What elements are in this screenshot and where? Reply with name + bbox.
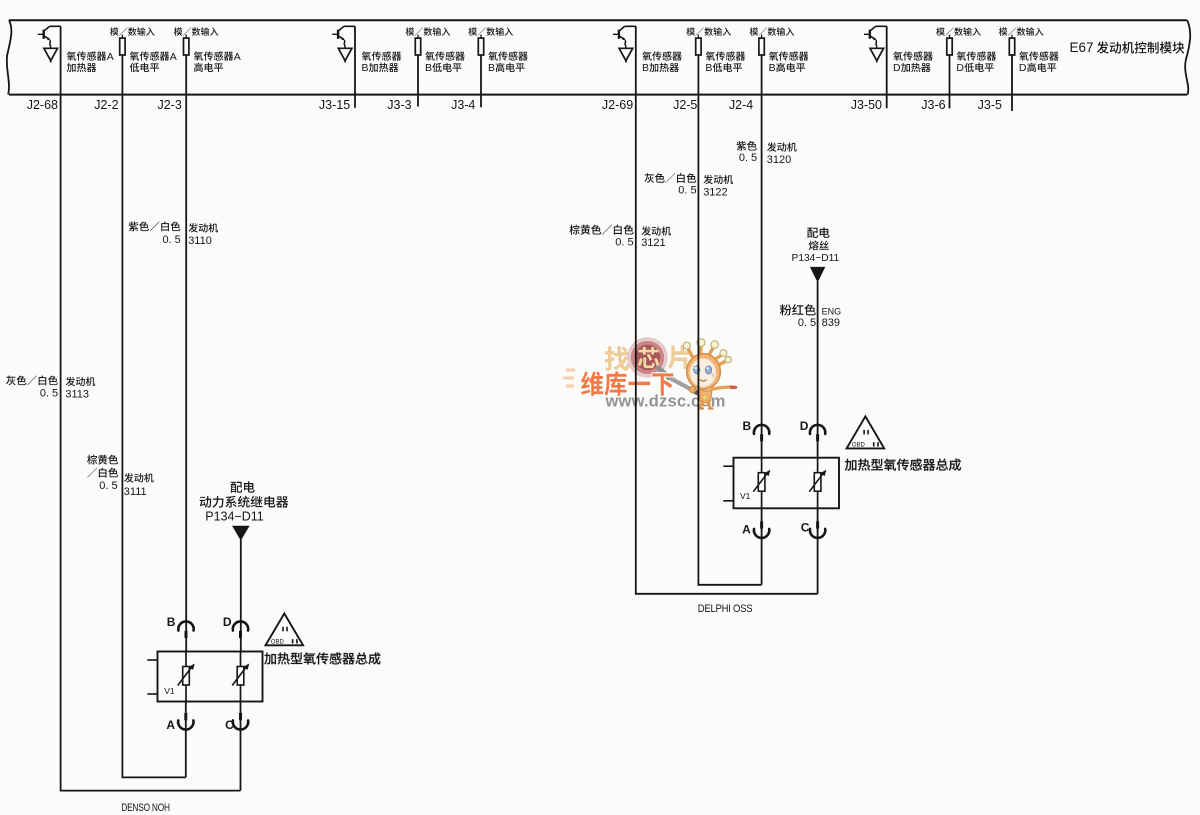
resistor input J2-2 (oxygen sensor A low) [121,35,123,39]
wire stub J3-4 [480,55,482,107]
DENSO case stub lower-left [147,693,157,695]
wire D inside DELPHI box [817,458,819,509]
sense element right (DELPHI) [814,473,821,492]
svg-text:0. 5: 0. 5 [162,234,180,246]
label 氧传感器 B高电平 (J2-4) [769,51,809,60]
svg-text:3121: 3121 [641,237,665,249]
transistor driver J2-68 (oxygen sensor A heater) [44,26,60,30]
svg-text:3110: 3110 [188,235,212,247]
wire stub J3-15 [354,26,356,108]
svg-text:E67: E67 [1070,40,1094,55]
svg-text:A: A [742,523,751,537]
svg-text:DELPHI OSS: DELPHI OSS [698,603,753,615]
svg-text:V1: V1 [164,686,175,696]
inline connector pin D (DELPHI) [810,425,825,434]
svg-text:A: A [166,718,175,732]
resistor input J3-5 (oxygen sensor D high) [1011,35,1013,39]
svg-text:C: C [225,718,234,732]
connector P134-D11 fuse feed triangle [811,267,825,281]
svg-text:J2-3: J2-3 [157,98,181,112]
transistor driver J2-69 (oxygen sensor B heater) [620,26,636,30]
svg-text:J2-68: J2-68 [27,98,58,112]
svg-text:B: B [488,62,495,74]
resistor input J3-6 (oxygen sensor D low) [949,35,951,39]
label 氧传感器 B低电平 (J2-5) [706,51,746,60]
sense element right (DENSO) [237,667,244,686]
label 氧传感器 D高电平 [1019,51,1059,60]
label 模/数输入 (J3-6) [936,27,980,35]
OBD II triangle (DELPHI) [847,416,885,448]
watermark mascot [683,339,737,409]
svg-text:J3-15: J3-15 [319,98,350,112]
wire color label 灰色/白色 0.5 发动机3122 (J2-5) [644,173,696,183]
svg-text:B: B [362,62,369,74]
svg-text:3122: 3122 [703,186,727,198]
resistor input J3-4 (oxygen sensor B high) [480,35,482,39]
svg-text:J3-3: J3-3 [387,98,411,112]
svg-text:D: D [1019,62,1027,74]
wire stub J3-50 [886,26,888,108]
transistor driver J3-50 (oxygen sensor D heater) [870,26,886,30]
resistor input J2-5 (oxygen sensor B low) [697,35,699,39]
OBD II triangle (DENSO) [266,614,304,646]
wire color label 紫色/白色 0.5 发动机3110 (J2-3) [129,221,181,231]
label 加热型氧传感器总成 (DELPHI) [845,459,961,471]
label 加热型氧传感器总成 (DENSO) [264,652,380,664]
wire stub J3-6 [949,55,951,108]
svg-text:A: A [234,51,241,63]
svg-text:V1: V1 [740,491,751,501]
label 氧传感器 B低电平 [425,51,465,60]
label 模/数输入 (J2-5) [686,27,730,35]
inline connector pin C (DENSO) [240,702,242,791]
DELPHI case stub upper-left [723,465,733,467]
transistor driver J3-15 (oxygen sensor B heater) [339,26,355,30]
wire color label 棕黄色/白色 0.5 发动机3121 (J2-69) [569,225,633,235]
label 模/数输入 (J2-2) [110,27,154,35]
wire J2-69 ECM to DELPHI pin C [636,26,818,594]
svg-text:0. 5: 0. 5 [678,185,696,197]
svg-text:D: D [893,62,901,74]
resistor input J2-3 (oxygen sensor A high) [185,35,187,39]
watermark dzsc.com logo [563,370,575,386]
wire color label 棕黄色/白色 0.5 发动机3111 (J2-2) [87,455,118,465]
svg-text:0. 5: 0. 5 [739,152,757,164]
label 模/数输入 (J3-3) [406,27,450,35]
inline connector pin A (DELPHI) [761,508,763,585]
label 氧传感器 D加热器 [893,51,933,60]
label 配电 动力系统继电器 P134-D11 [231,481,255,493]
svg-text:J2-5: J2-5 [673,98,697,112]
label 氧传感器 B加热器 (J2-69) [642,51,682,60]
wire color label 粉红色 0.5 ENG839 (fuse feed) [780,304,816,315]
svg-text:B: B [425,62,432,74]
label 氧传感器 B加热器 [362,51,402,60]
wire J2-3 ECM to DENSO pin B [185,55,187,652]
DELPHI case stub lower-left [723,500,733,502]
wire B inside DENSO box [185,652,187,702]
connector P134-D11 relay feed triangle [233,526,249,539]
svg-text:J3-4: J3-4 [451,98,475,112]
label 氧传感器A 加热器 [67,51,107,60]
inline connector pin A (DENSO) [185,702,187,778]
svg-text:B: B [769,62,776,74]
svg-text:B: B [743,419,752,433]
svg-text:P134−D11: P134−D11 [792,253,840,264]
svg-text:839: 839 [822,317,840,329]
oxygen sensor assembly DENSO NOH box [158,652,263,702]
svg-text:J2-69: J2-69 [602,98,633,112]
svg-text:3113: 3113 [65,389,89,401]
wire J2-5 ECM to DELPHI pin A [698,55,761,585]
label 模/数输入 (J3-5) [999,27,1043,35]
label 氧传感器 D低电平 [957,51,997,60]
svg-text:C: C [801,521,810,535]
wire color label 紫色 0.5 发动机3120 (J2-4) [737,141,757,151]
inline connector pin C (DELPHI) [817,508,819,594]
heater element left (DENSO V1) [183,667,190,686]
svg-text:J2-2: J2-2 [94,98,118,112]
ECM module E67 band outline [9,20,1187,94]
svg-text:J3-50: J3-50 [851,98,882,112]
svg-text:J3-6: J3-6 [921,98,945,112]
label 氧传感器 B高电平 [488,51,528,60]
svg-text:3111: 3111 [124,486,147,498]
svg-text:D: D [956,62,964,74]
svg-text:3120: 3120 [767,154,791,166]
wire B inside DELPHI box [761,458,763,509]
svg-text:D: D [223,615,232,629]
label 配电 熔丝 P134-D11 (fuse) [807,227,829,238]
svg-text:J3-5: J3-5 [978,98,1002,112]
svg-text:P134−D11: P134−D11 [205,509,264,523]
label 氧传感器A 高电平 [194,51,234,60]
svg-text:0. 5: 0. 5 [615,236,633,248]
svg-text:D: D [800,419,809,433]
svg-text:A: A [170,51,177,63]
svg-text:0. 5: 0. 5 [99,480,117,492]
inline connector pin B (DELPHI) [754,425,769,434]
svg-text:A: A [107,51,114,63]
wire J2-4 ECM to DELPHI pin B [761,55,763,458]
inline connector pin D (DENSO) [233,621,248,630]
resistor input J2-4 (oxygen sensor B high) [761,35,763,39]
svg-text:OBD: OBD [852,443,866,449]
heater element left (DELPHI V1) [758,473,765,492]
svg-text:ENG: ENG [822,307,842,317]
svg-text:B: B [705,62,712,74]
svg-text:DENSO NOH: DENSO NOH [121,802,170,814]
wire D inside DENSO box [240,652,242,702]
DENSO case stub upper-left [147,659,157,661]
label 模/数输入 (J2-3) [174,27,218,35]
svg-text:B: B [642,62,649,74]
wire stub J3-5 [1011,55,1013,111]
wire color label 灰色/白色 0.5 发动机3113 (J2-68) [6,375,58,385]
wire J2-2 ECM to DENSO pin A [122,55,185,777]
wire stub J3-3 [417,55,419,107]
label 氧传感器A 低电平 [130,51,170,60]
wire fuse feed to DELPHI pin D [817,281,819,457]
label 模/数输入 (J3-4) [468,27,512,35]
wire relay feed to DENSO pin D [240,540,242,652]
svg-text:J2-4: J2-4 [729,98,753,112]
svg-text:B: B [167,615,176,629]
svg-text:0. 5: 0. 5 [40,387,58,399]
resistor input J3-3 (oxygen sensor B low) [417,35,419,39]
wire J2-68 ECM to DENSO pin C (lower left) [61,26,241,790]
inline connector pin B (DENSO) [178,621,193,630]
svg-text:0. 5: 0. 5 [798,317,816,329]
label 模/数输入 (J2-4) [750,27,794,35]
svg-text:OBD: OBD [271,640,285,646]
oxygen sensor assembly DELPHI OSS box [734,458,840,509]
